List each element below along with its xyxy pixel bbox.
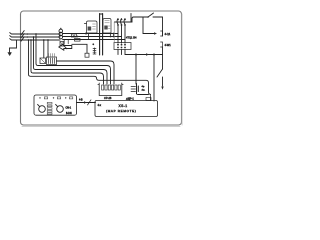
terminal strip XT	[60, 42, 64, 47]
wire output run	[125, 54, 163, 56]
wire tie verticals	[111, 34, 114, 37]
XB pin stubs	[49, 54, 55, 58]
wire top run	[100, 13, 103, 15]
label CP28	[104, 96, 112, 100]
wire breaker feed	[130, 14, 132, 23]
knob SA1	[39, 106, 46, 113]
node f	[135, 54, 137, 56]
wire arrow stubs	[64, 40, 68, 44]
switch SA top-right	[143, 16, 148, 18]
node g	[153, 54, 155, 56]
wire sa right leg	[162, 17, 164, 36]
svg-text:4q-: 4q-	[142, 86, 145, 88]
arrowhead output	[146, 53, 149, 56]
node qs2	[20, 36, 22, 38]
wire terminal lower	[162, 77, 164, 86]
node k	[113, 36, 115, 38]
wire L1 phase bus	[10, 33, 60, 34]
terminal bracket 2	[161, 42, 163, 47]
relay KA2 box	[103, 19, 111, 34]
label 4Q1	[165, 32, 171, 36]
wire lower control	[63, 36, 122, 38]
svg-text:4-W1: 4-W1	[165, 43, 172, 47]
svg-text:B-DN: B-DN	[66, 113, 72, 115]
node qs3	[20, 39, 22, 41]
label panel right	[66, 108, 72, 110]
wire contactor out 1	[117, 50, 119, 55]
contactor KM contacts	[117, 44, 119, 46]
label 4TQ small	[126, 99, 131, 101]
wire to fuse box	[63, 33, 118, 35]
wire contactor out 2	[121, 50, 123, 55]
wire arrow feed	[72, 44, 87, 53]
winding W1	[93, 48, 96, 54]
switch QS pole 1	[21, 31, 24, 35]
node bus junction f2	[47, 39, 49, 41]
fuse FU2	[59, 32, 63, 36]
wire terminals down	[162, 47, 164, 69]
node e	[85, 33, 87, 35]
ground symbol	[8, 53, 12, 56]
wire drop to label box	[153, 55, 155, 102]
svg-text:4TQ: 4TQ	[126, 99, 131, 101]
svg-text:XS-1: XS-1	[119, 104, 128, 108]
wire drop left 3	[34, 37, 108, 84]
wire sa left leg	[143, 17, 154, 34]
enclosure frame	[21, 11, 182, 125]
svg-text:4TQ1 B4: 4TQ1 B4	[126, 36, 137, 40]
node bus junction a	[35, 33, 37, 35]
fuse FU3	[59, 35, 63, 39]
breaker QF pole 3	[124, 19, 125, 44]
connector XS1 body	[98, 83, 123, 96]
arrow down terminal	[161, 87, 163, 90]
node qs4	[27, 33, 29, 35]
connector XS1 pins	[102, 85, 104, 90]
plug XP1 body	[136, 84, 138, 95]
cable arrow marker	[59, 44, 72, 50]
svg-text:4-Q1: 4-Q1	[165, 32, 171, 36]
label 4w plug	[142, 90, 146, 92]
coil K1 box	[85, 53, 89, 57]
wire ka1 stub	[84, 23, 86, 25]
dip switches	[47, 102, 52, 104]
wire plug up	[135, 55, 137, 85]
relay KA1 box	[87, 21, 98, 33]
node bus junction c	[28, 39, 30, 41]
node j	[110, 36, 112, 38]
node m	[77, 36, 79, 38]
label 4W1	[165, 43, 172, 47]
node i	[113, 33, 115, 35]
node bus junction d	[30, 39, 32, 41]
resistor R1 box	[75, 39, 81, 42]
arrowhead sa	[154, 32, 157, 35]
label XP1	[128, 97, 134, 101]
label 4q plug	[142, 86, 145, 88]
transformer T1 drop2	[47, 40, 49, 58]
label box	[95, 101, 158, 117]
cable tick	[88, 100, 92, 105]
arrowhead panel wire	[84, 101, 87, 103]
label 4QF1	[126, 36, 137, 40]
svg-text:4w-: 4w-	[142, 90, 146, 92]
switch QS pole 2	[21, 34, 24, 38]
fuse FU1	[59, 29, 63, 33]
wire drop left 1	[29, 40, 152, 101]
node bus junction b	[33, 36, 35, 38]
breaker QF tie bar	[115, 21, 133, 23]
switch S2 blade	[157, 69, 163, 77]
terminal bracket 1	[161, 31, 163, 36]
label box text	[119, 104, 128, 108]
svg-text:ON-1: ON-1	[66, 108, 72, 110]
wire contactor out 3	[124, 50, 126, 55]
node qs1	[20, 33, 22, 35]
wire L2 phase bus	[10, 36, 60, 37]
knob SA2	[57, 106, 64, 113]
transformer T1 drop	[43, 40, 45, 58]
wire panel to box	[77, 102, 96, 104]
node bus junction e2	[43, 39, 45, 41]
wire xt hook	[64, 46, 67, 49]
control panel box	[34, 95, 77, 115]
wire plug out	[138, 94, 149, 96]
label above arrow	[79, 100, 83, 102]
connector box XB	[47, 57, 57, 65]
node qs5	[27, 36, 29, 38]
wire L3 phase bus	[10, 39, 60, 40]
rectifier box VC	[40, 58, 46, 64]
small box above label box	[146, 98, 151, 101]
wire tie riser	[132, 17, 143, 22]
breaker QF pole 1	[117, 19, 118, 44]
node xt cap	[60, 28, 61, 29]
switch QS pole 3	[21, 37, 24, 41]
panel top labels	[39, 97, 40, 98]
shield bar 1	[99, 14, 101, 56]
wire drop left 4	[36, 34, 111, 84]
contactor KM box	[114, 43, 131, 50]
wire ka1 drop	[88, 34, 90, 40]
ground branch wire	[10, 40, 17, 52]
shield bar 2	[102, 14, 104, 56]
breaker QF pole 2	[121, 19, 122, 44]
svg-text:4-B: 4-B	[79, 100, 83, 102]
node w1	[92, 43, 94, 45]
fuse FU4 box	[72, 33, 77, 37]
svg-text:CP-28: CP-28	[104, 96, 112, 100]
svg-text:(MAP REMOTE): (MAP REMOTE)	[106, 109, 137, 113]
node h	[110, 33, 112, 35]
frame shadow	[22, 14, 182, 126]
wire drop left 2	[31, 40, 104, 84]
wire breaker left edge	[113, 22, 115, 43]
wire control out	[57, 61, 115, 84]
